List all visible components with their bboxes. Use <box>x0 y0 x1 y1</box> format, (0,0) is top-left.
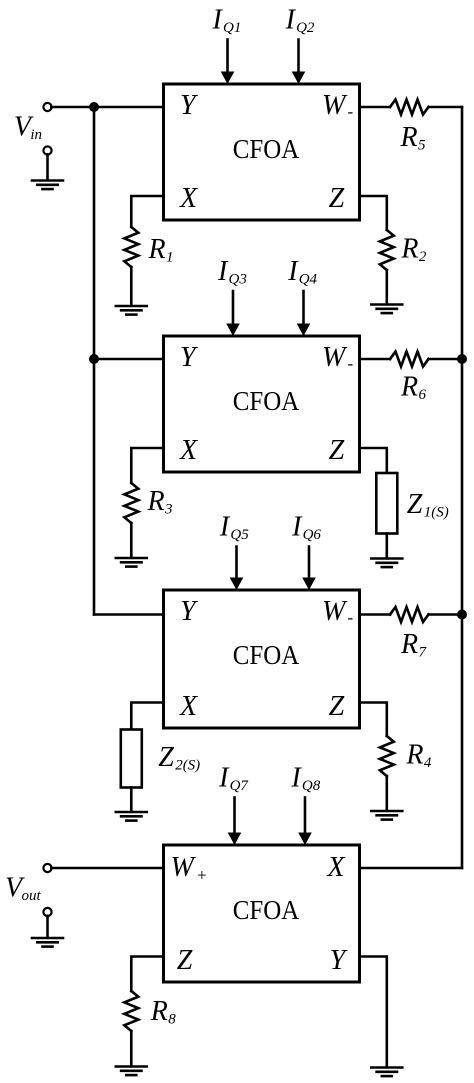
svg-text:7: 7 <box>419 644 428 660</box>
svg-text:W: W <box>322 90 348 121</box>
input terminal Vin <box>43 103 51 111</box>
wire Z2 to ground <box>130 788 133 812</box>
wire right bus to U4 pin X <box>360 867 463 870</box>
wire left bus to U2 pin Y <box>94 358 164 361</box>
wire R4 to ground <box>385 776 388 811</box>
svg-text:R: R <box>147 486 165 517</box>
resistor R7 <box>390 607 429 622</box>
input reference terminal <box>43 146 51 154</box>
resistor R3 <box>124 483 138 523</box>
current source IQ6 arrow into U3 <box>308 547 311 582</box>
resistor R2 <box>380 230 394 270</box>
svg-text:X: X <box>326 852 345 883</box>
wire U1 X to R1 <box>131 196 163 227</box>
svg-text:Z: Z <box>329 691 345 722</box>
svg-text:-: - <box>348 608 354 627</box>
svg-text:R: R <box>405 740 423 771</box>
svg-text:out: out <box>22 888 42 904</box>
svg-text:Q5: Q5 <box>230 527 249 543</box>
svg-text:X: X <box>179 435 198 466</box>
wire U3 X to Z2 <box>131 703 163 730</box>
svg-text:2(S): 2(S) <box>175 758 200 774</box>
wire U2 W- to R6 <box>360 358 391 361</box>
svg-text:-: - <box>348 354 354 373</box>
wire U4 Z to R8 <box>131 957 163 992</box>
wire Vout to U4 pin W+ <box>51 867 163 870</box>
svg-text:+: + <box>196 866 207 885</box>
svg-text:CFOA: CFOA <box>233 640 300 670</box>
svg-text:6: 6 <box>419 387 427 403</box>
resistor R8 <box>124 991 138 1031</box>
impedance Z2(S) <box>121 730 142 788</box>
svg-text:CFOA: CFOA <box>233 134 300 164</box>
svg-text:I: I <box>219 512 231 543</box>
svg-text:X: X <box>179 183 198 214</box>
ground (output reference) <box>32 937 63 940</box>
ground (U4 Y) <box>371 1066 402 1069</box>
svg-text:4: 4 <box>424 755 432 771</box>
svg-text:2: 2 <box>419 249 427 265</box>
wire R3 to ground <box>130 523 133 558</box>
svg-text:R: R <box>400 372 418 403</box>
wire right bus (down to U4 X) <box>461 107 464 868</box>
svg-text:I: I <box>212 4 224 35</box>
wire U4 Y to ground <box>360 957 387 1068</box>
svg-text:Z: Z <box>329 183 345 214</box>
svg-text:CFOA: CFOA <box>233 895 300 925</box>
svg-text:8: 8 <box>168 1012 176 1028</box>
output reference terminal <box>43 908 51 916</box>
op-amp U3 CFOA box <box>164 590 360 728</box>
svg-text:W: W <box>171 852 197 883</box>
svg-text:X: X <box>179 691 198 722</box>
svg-text:I: I <box>290 763 302 794</box>
svg-text:I: I <box>218 763 230 794</box>
wire U3 W- to R7 <box>360 613 391 616</box>
wire R2 to ground <box>385 270 388 304</box>
op-amp U1 CFOA box <box>164 84 360 220</box>
resistor R6 <box>390 352 429 367</box>
svg-text:Q7: Q7 <box>230 778 250 794</box>
current source IQ5 arrow into U3 <box>235 547 238 582</box>
wire R8 to ground <box>130 1031 133 1066</box>
svg-text:W: W <box>322 342 348 373</box>
wire left bus to U3 pin Y <box>94 613 164 616</box>
ground (Z2) <box>116 811 147 814</box>
node B junction (left bus / U2 Y) <box>89 354 99 364</box>
current source IQ2 arrow into U1 <box>297 40 300 76</box>
wire Vin to U1 pin Y <box>51 106 163 109</box>
resistor R4 <box>380 736 394 776</box>
wire input reference to ground <box>46 154 49 180</box>
svg-text:I: I <box>291 512 303 543</box>
current source IQ4 arrow into U2 <box>302 291 305 327</box>
svg-text:I: I <box>217 256 229 287</box>
output terminal Vout <box>43 864 51 872</box>
wire R7 to right bus <box>429 613 463 616</box>
op-amp U2 CFOA box <box>164 336 360 472</box>
wire U1 W- to R5 <box>360 106 391 109</box>
node D junction (right bus / R7) <box>457 610 467 620</box>
wire R1 to ground <box>130 267 133 306</box>
svg-text:1(S): 1(S) <box>424 505 449 521</box>
op-amp U4 CFOA box <box>164 845 360 982</box>
ground (Z1) <box>371 557 402 560</box>
svg-text:Q3: Q3 <box>229 271 247 287</box>
ground (R1) <box>116 305 147 308</box>
wire U3 Z to R4 <box>360 703 387 737</box>
current source IQ7 arrow into U4 <box>233 798 236 837</box>
svg-text:W: W <box>322 596 348 627</box>
svg-text:Q6: Q6 <box>303 527 322 543</box>
ground (R2) <box>371 303 402 306</box>
svg-text:R: R <box>400 629 418 660</box>
wire U2 X to R3 <box>131 448 163 483</box>
wire R6 to right bus <box>429 358 463 361</box>
ground (R8) <box>116 1065 147 1068</box>
ground (R4) <box>371 810 402 813</box>
svg-text:Z: Z <box>177 945 193 976</box>
svg-text:-: - <box>348 102 354 121</box>
svg-text:R: R <box>148 234 166 265</box>
svg-text:R: R <box>400 234 418 265</box>
svg-text:I: I <box>285 4 297 35</box>
svg-text:Q2: Q2 <box>296 20 315 36</box>
current source IQ1 arrow into U1 <box>226 40 229 76</box>
wire Z1 to ground <box>385 534 388 559</box>
wire U2 Z to Z1 <box>360 448 387 473</box>
svg-text:CFOA: CFOA <box>233 386 300 416</box>
svg-text:Q1: Q1 <box>223 20 241 36</box>
wire left bus (node A down to U3 Y) <box>93 107 96 615</box>
resistor R5 <box>390 100 429 115</box>
impedance Z1(S) <box>376 473 397 534</box>
svg-text:Q8: Q8 <box>302 778 321 794</box>
wire R5 to right bus <box>429 106 463 109</box>
svg-text:3: 3 <box>164 502 173 518</box>
wire U1 Z to R2 <box>360 196 387 230</box>
svg-text:1: 1 <box>166 250 174 266</box>
wire output reference to ground <box>46 916 49 938</box>
current source IQ3 arrow into U2 <box>232 291 235 327</box>
svg-text:R: R <box>150 996 168 1027</box>
ground (R3) <box>116 557 147 560</box>
svg-text:5: 5 <box>418 138 426 154</box>
node A junction (Vin/left bus) <box>89 102 99 112</box>
node C junction (right bus / R6) <box>457 354 467 364</box>
svg-text:I: I <box>287 256 299 287</box>
svg-text:Z: Z <box>329 435 345 466</box>
svg-text:in: in <box>30 127 42 143</box>
ground (input reference) <box>32 179 63 182</box>
svg-text:Z: Z <box>407 489 423 520</box>
svg-text:Q4: Q4 <box>299 271 318 287</box>
resistor R1 <box>124 227 138 267</box>
svg-text:Z: Z <box>158 742 174 773</box>
current source IQ8 arrow into U4 <box>304 798 307 837</box>
svg-text:R: R <box>400 122 418 153</box>
